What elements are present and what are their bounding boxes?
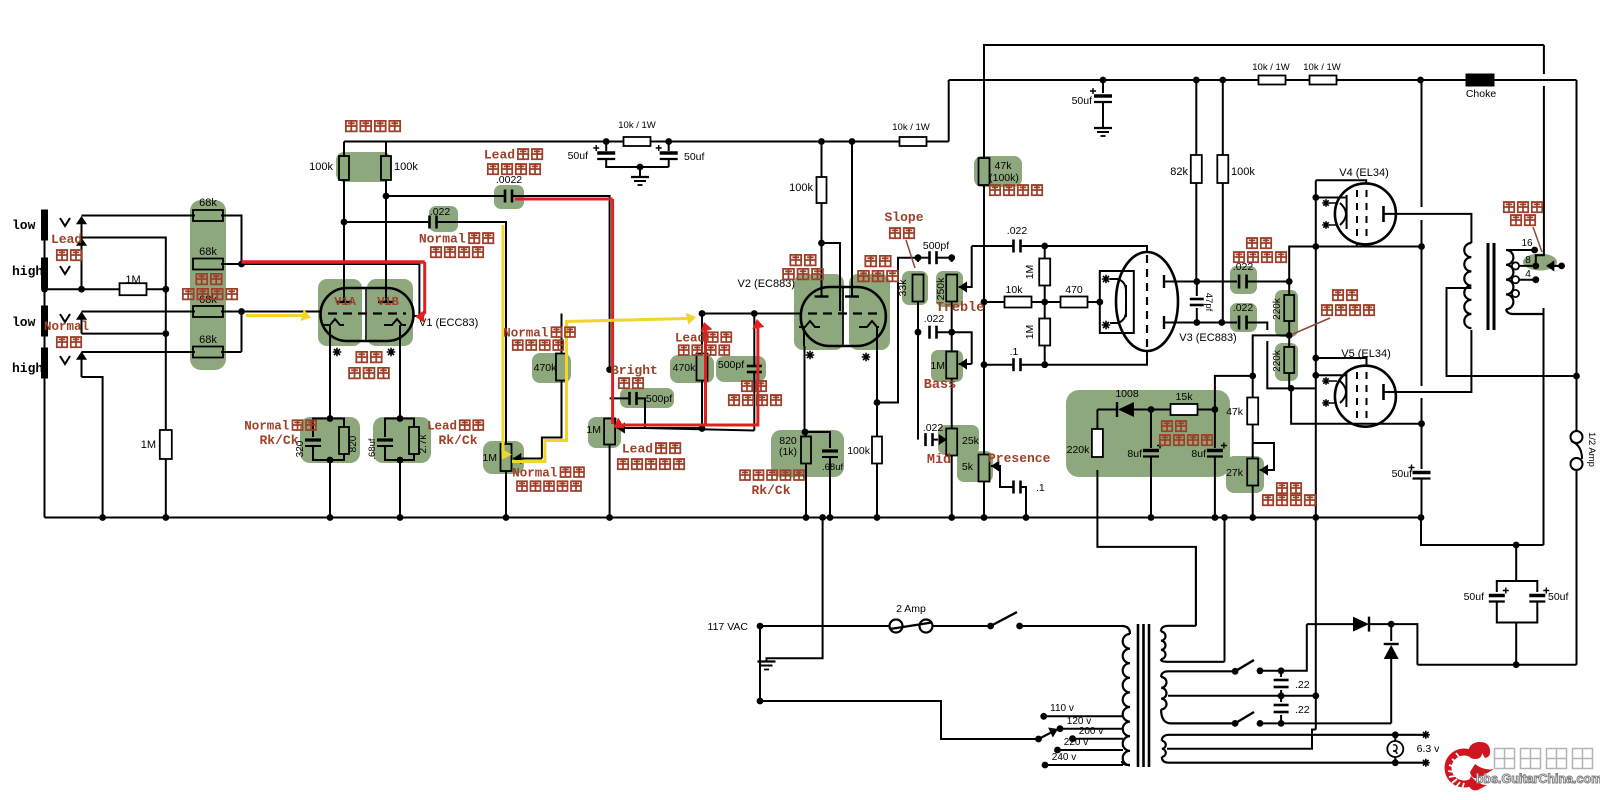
wire: treble wiper to PI coupling cap [972,245,1014,247]
wire: HT tap lower to .22 [1260,722,1281,724]
highlight box: Normal volume pot [483,441,524,474]
wire: V4/V5 grid vertical [1315,180,1317,517]
svg-text:Choke: Choke [1466,88,1497,100]
wire: reservoir bottom to HT line [1515,623,1517,665]
svg-text:.68uf: .68uf [822,462,843,473]
jack J4 Normal high sleeve bar [42,348,48,378]
svg-text:Lead: Lead [427,420,457,434]
junction: V4 screen on supply [1418,243,1425,250]
svg-text:2 Amp: 2 Amp [896,603,926,615]
selector arrow: mains voltage [1035,736,1042,743]
resistor 820 Normal Rk [330,419,344,428]
svg-text:V5 (EL34): V5 (EL34) [1341,348,1391,360]
ground symbol: filter caps [639,167,641,177]
label: mixing bypass cap [742,381,766,391]
capacitor 50uf filter B [668,142,670,152]
wire: Normal coupling cap to volume pot [437,222,507,444]
wire: switch to PT primary [1020,625,1122,627]
junction: slope bottom / bass cap [915,329,922,336]
highlight box: feedback resistor 47k(100k) [974,156,1022,187]
tube V3 EC883 envelope [1116,252,1178,351]
svg-text:high: high [12,361,43,376]
jack J4 tip contact [60,356,70,364]
logo: GuitarChina title [1495,749,1593,769]
resistor 220k bias splitter upper [1288,282,1290,296]
highlight box: V2 Rk/Ck 820/.68uf [771,430,844,477]
svg-text:V1B: V1B [377,295,399,309]
junction: V2 grid node (bypass top) [751,310,758,317]
svg-text:50uf: 50uf [1548,591,1569,603]
svg-text:10k: 10k [1006,284,1024,296]
svg-text:Rk/Ck: Rk/Ck [259,433,298,448]
label: input grid resistors [196,274,221,285]
junction: V4 grid node [1286,278,1293,285]
wire: right edge HT feed (rail2 corner down to fuse) [1576,80,1578,431]
highlight box: bias trim pot 27k [1226,456,1264,493]
wire: OT primary center tap to HT [1447,288,1577,376]
junction: Lead wiper/470k bottom [699,425,706,432]
junction: Normal pot on bus [503,514,510,521]
junction: mid pot on bus [948,514,955,521]
label: second amplification stage [790,255,815,266]
wire: B+ rail 2 (screen supply) [949,79,1577,81]
diode rectifier D2 [1390,624,1392,641]
heater mark V2a [806,351,814,359]
label: negative feedback tap [1504,202,1542,212]
svg-text:1/2 Amp: 1/2 Amp [1586,432,1597,467]
junction: Lead Rk on bus [397,514,404,521]
capacitor .68uf Lead Ck [385,419,400,438]
transformer PT primary winding [1122,626,1130,634]
capacitor 50uf reservoir right [1529,594,1545,597]
wire: mains hot to fuse [760,625,889,627]
svg-text:8uf: 8uf [1191,448,1206,460]
svg-text:V3 (EC883): V3 (EC883) [1179,332,1236,344]
highlight box: V1B triode [367,279,413,346]
transformer PT HT winding upper [1161,626,1196,632]
capacitor 50uf reservoir left [1489,594,1505,597]
wire: mains neutral [760,626,1036,739]
arrow: feedback points at 8 ohm tap [1549,265,1562,267]
junction: V5 screen on supply [1418,420,1425,427]
svg-text:50uf: 50uf [1072,95,1093,107]
svg-text:Rk/Ck: Rk/Ck [438,433,477,448]
wire: Normal Rk/Ck to ground bus [329,460,331,518]
leader: slope to 33k [906,240,915,268]
svg-text:200 v: 200 v [1079,726,1103,737]
potentiometer 5k presence [979,455,990,482]
resistor 68k R2 (Lead high) [221,263,242,265]
tube V3 grid box [1100,271,1134,333]
svg-text:Lead: Lead [484,148,515,163]
resistor 15k bias [1151,409,1171,411]
junction: PI tail cap node [1041,361,1048,368]
capacitor .22 snubber lower [1280,696,1282,702]
resistor 68k R3 (Normal low) [193,306,223,317]
svg-text:Normal: Normal [419,232,466,247]
switch: HT tap lower [1232,720,1239,727]
jack J2 tip arrow [81,240,83,290]
resistor 10k/1W screen dropper B [1310,76,1337,85]
svg-text:27k: 27k [1226,467,1244,479]
tap loop secondary lower [1512,290,1519,297]
resistor 10k/1W dropper A [624,137,651,146]
svg-text:Rk/Ck: Rk/Ck [751,483,790,498]
capacitor 500pf treble [918,257,930,259]
junction: 4 ohm tap end [1532,276,1539,283]
resistor 47k bias [1252,376,1254,398]
wire: V5 top grid jumper [1316,358,1367,366]
svg-text:Lead: Lead [622,442,653,457]
svg-text:10k / 1W: 10k / 1W [618,120,656,131]
svg-text:100k: 100k [1231,166,1255,178]
tube V1A plate bar [337,301,352,303]
potentiometer 1M bass [951,332,953,351]
capacitor 50uf screen filter [1102,80,1104,93]
wire: V4 cathode/screen line [1356,244,1358,247]
highlight box: Lead Rk/Ck [373,417,431,463]
switch: mains power [987,623,994,630]
wire: jack sleeve bus (left vertical) [44,213,46,518]
junction: 8uf A on bus [1148,514,1155,521]
resistor 820(1k) V2 Rk [805,432,807,437]
junction: center tap to ground riser [1312,692,1319,699]
svg-text:Lead: Lead [51,232,82,247]
highlight box: bias splitter 220k upper [1275,290,1298,337]
tube V1B cathode [384,319,406,341]
svg-text:16: 16 [1521,238,1533,249]
svg-text:Treble: Treble [936,301,985,316]
lamp: pilot light 6.3v [1392,731,1399,738]
svg-text:8uf: 8uf [1127,448,1142,460]
svg-text:220 v: 220 v [1064,737,1088,748]
wire: V4 grid entry [1316,197,1347,199]
resistor 470 PI grid stopper [1045,301,1061,303]
svg-text:470: 470 [1065,284,1083,296]
resistor 33k slope [917,258,919,262]
tube V3 plate B bar [1163,316,1165,329]
wire: V4 grid feed riser [1289,247,1421,282]
svg-text:68k: 68k [199,334,217,346]
tube V5 internal dashes [1357,372,1367,420]
junction: presence line/.1 [981,361,988,368]
junction: bias chain top [1249,373,1256,380]
wire: J2 tip riser to 68k R2 line [82,238,166,265]
wire: ground bus [45,517,1422,519]
leader: bias splitter to mid node [1293,318,1330,334]
wire: V5 cathode line from 220k bottom [1291,388,1421,423]
wire: HT winding top lead riser [1195,547,1197,626]
svg-text:10k / 1W: 10k / 1W [892,122,930,133]
svg-text:Bass: Bass [924,378,956,393]
heater wire end marks [1422,731,1430,739]
highlight box: output coupling cap 1 [1230,266,1257,294]
junction: presence cap on bus [1023,514,1030,521]
transformer PT core [1137,624,1140,767]
svg-text:.1: .1 [1010,346,1019,358]
svg-text:10k / 1W: 10k / 1W [1303,62,1341,73]
svg-text:Normal: Normal [244,420,289,434]
resistor 100k V2 plate [821,142,823,178]
tube V2a cathode [799,321,820,346]
wire: follower grid feed [822,243,841,311]
svg-text:high: high [12,264,43,279]
wire: V2 ground drop [767,518,823,662]
junction: x=102.6 on ground bus [99,514,106,521]
tube V1 center divider [365,288,367,341]
svg-text:1M: 1M [1024,265,1036,280]
wire: PI grid node to tube top [1045,246,1147,253]
heater mark V1B [387,348,395,356]
svg-text:low: low [12,218,36,233]
wire: J4 tip to 68k R4 [82,351,196,353]
junction: 27k on bus [1249,514,1256,521]
junction: rail1 V2 plate [818,138,825,145]
fuse 2 Amp mains [890,620,903,633]
junction: reservoir on HT line [1513,661,1520,668]
highlight box: Lead mixing resistor 470k [670,355,714,383]
highlight box: Lead coupling cap [494,185,524,209]
junction: center tap/.22 node [1278,692,1285,699]
wire: fuse to switch [933,625,991,627]
wire: cathode follower plate to rail1 [851,142,853,297]
svg-text:1M: 1M [141,439,156,451]
fuse 1/2 Amp speaker [1571,431,1583,443]
junction: sleeve/1M [41,286,48,293]
junction: 8 ohm feedback node [1532,263,1539,270]
junction: V1A plate tap [341,219,348,226]
svg-text:.22: .22 [1295,704,1310,716]
capacitor .1 presence [1012,481,1015,494]
svg-text:15k: 15k [1176,391,1194,403]
transformer PT HT winding tapped [1161,671,1235,677]
tube V3 cathode bracket [1110,279,1126,323]
tube V4 EL34 envelope [1335,183,1396,244]
wire: tail node to V3 bottom [1045,350,1147,365]
potentiometer 25k mid [946,429,957,456]
resistor 10k PI divider [984,301,1005,303]
highlight box: presence pot 5k [957,451,993,482]
svg-text:10k / 1W: 10k / 1W [1252,62,1290,73]
svg-text:100k: 100k [789,182,813,194]
capacitor .022 output coupling upper [1238,275,1241,289]
capacitor 320 Normal Ck [313,419,330,438]
signal path: Lead red wire to volume pot [515,198,613,201]
svg-text:1M: 1M [482,452,497,464]
wire: V1A cathode to Rk/Ck [329,341,331,419]
resistor 82k V3 plate A load [1195,80,1197,156]
svg-text:470k: 470k [673,362,697,374]
wire: bias mid to bias supply [1253,335,1290,376]
resistor 68k R1 (Lead low) [193,210,223,221]
wire: negative feedback drop to speaker tap [1543,45,1545,74]
svg-text:Lead: Lead [675,332,705,346]
highlight box: slope resistor 33k [902,271,928,305]
junction: treble bottom / bass top [948,329,955,336]
highlight box: V1 plate resistors [336,152,391,182]
junction: B+ to right edge [1573,373,1580,380]
leader: feedback label to tap [1533,227,1542,252]
inductor Choke [1466,74,1494,86]
svg-text:1M: 1M [586,424,601,436]
wire: Normal grid wire to V1A [242,311,321,313]
wire: J3 bottom to vertical [82,333,166,335]
svg-text:25k: 25k [962,435,980,447]
junction: presence pot on bus [981,514,988,521]
tube V1 internal grid dashes [328,312,406,314]
wire: follower cathode to tail [876,346,878,403]
junction: rail2 100k [1219,77,1226,84]
wire: screen supply vertical x=1421.5 [1421,80,1423,207]
junction: 820 on bus [803,514,810,521]
svg-text:50uf: 50uf [684,151,705,163]
svg-text:(100k): (100k) [989,172,1019,184]
wire: PT tap 110v [1044,715,1123,717]
wire: bass wiper tie [952,332,972,364]
svg-text:6.3 v: 6.3 v [1417,743,1441,755]
capacitor 50uf screen bypass [1421,466,1423,469]
highlight box: V2 second stage triode [794,274,844,350]
junction: plate A / 82k / 47pf [1193,278,1200,285]
capacitor .022 bass [928,326,931,339]
junction: J2 arrow bottom [78,286,85,293]
junction: 8uf B on bus [1212,514,1219,521]
svg-text:100k: 100k [309,161,333,173]
ground symbol: mains earth [758,660,776,662]
junction: Lead pot on bus [606,514,613,521]
jack J1 tip contact [60,218,70,226]
capacitor .022 PI input [1012,240,1015,253]
svg-text:V1A: V1A [334,295,356,309]
tube V5 plate bar [1382,384,1385,400]
wire: Lead coupling cap to volume pot [512,196,610,370]
switch: HT tap upper [1232,668,1239,675]
node: V2a cathode net top [802,429,809,436]
wire: PT tap 120v [1060,728,1123,730]
svg-text:8: 8 [1525,255,1531,266]
highlight: negative feedback tap [1523,254,1557,271]
highlight box: mid pot 25k [938,425,979,455]
wire: output transformer secondary return [1543,314,1545,545]
transformer OT secondary winding [1506,250,1513,309]
resistor 47k(100k) feedback [983,156,985,159]
svg-text:.1: .1 [1036,482,1045,494]
svg-text:117 VAC: 117 VAC [708,621,749,633]
svg-text:68k: 68k [199,246,217,258]
junction: tone stack input node [915,254,922,261]
svg-text:50uf: 50uf [1464,591,1485,603]
potentiometer 250k treble [951,258,953,262]
resistor 100k follower tail [876,403,878,438]
svg-text:Normal: Normal [503,327,548,341]
svg-text:220k: 220k [1067,444,1091,456]
signal path: Normal yellow wire to volume pot [502,225,505,452]
wire: reservoir cap bridge [1497,545,1516,592]
label: cathode follower [865,256,890,267]
wire: Lead wiper line to mixing network [645,428,754,431]
wire: V5 plate to OT primary bottom [1384,330,1472,392]
svg-text:82k: 82k [1170,166,1188,178]
svg-text:Presence: Presence [988,451,1051,466]
svg-text:V4 (EL34): V4 (EL34) [1339,167,1389,179]
svg-text:Bright: Bright [611,363,658,378]
tube V3 internal dashed electrode [1146,255,1148,349]
label: plate resistors (ping ji dian zu) [346,121,400,132]
node: Lead cathode bottom [397,457,404,464]
resistor 68k R4 (Normal high) [221,351,242,353]
wire: tap lower to rectifier diode 2 [1281,722,1391,724]
highlight box: Lead volume pot [588,417,621,448]
highlight box: bias splitter 220k lower [1275,343,1298,381]
highlight box: bright cap 500pf [620,388,674,408]
junction: Normal Rk on bus [327,514,334,521]
svg-text:4: 4 [1525,269,1531,280]
resistor 1M input shunt (horizontal) [146,288,166,290]
wire: feedback/presence line [983,186,985,455]
wire: V2a cathode down [804,346,806,432]
tap loop 8 ohm [1512,262,1519,269]
node: Normal cathode top [327,415,334,422]
highlight box: V1A triode [318,279,362,346]
node: Lead cathode top [397,415,404,422]
tube V1 ECC83 envelope [321,288,414,341]
svg-text:1M: 1M [125,274,140,286]
junction: plate B / 100k [1218,319,1225,326]
transformer PT heater winding 6.3v [1162,735,1426,741]
junction: 1M right [162,286,169,293]
label: first amplification stage [356,352,381,363]
junction: rail1 50uf-a [603,138,610,145]
tube V4 cathode arc [1340,203,1346,225]
junction: V5 grid tap [1312,372,1319,379]
junction: V2 grid node (470k top) [699,310,706,317]
svg-text:2.7k: 2.7k [418,434,429,454]
svg-text:50uf: 50uf [568,150,589,162]
heater mark V4 lower [1322,221,1330,229]
svg-text:.0022: .0022 [496,174,522,186]
wire: bias feed from HT winding [1097,470,1196,626]
junction: follower cathode node [874,399,881,406]
tube V5 cathode arc [1340,381,1346,403]
highlight box: bass pot 1M [931,350,963,382]
wire: PT tap 220v [1058,749,1124,751]
svg-text:(1k): (1k) [779,446,797,458]
junction: rail1 follower plate [849,138,856,145]
wire: HT upper bottom lead to ground bus [1224,518,1226,662]
node: Normal cathode bottom [327,457,334,464]
junction: Lead channel mix point [238,261,245,268]
highlight box: Normal coupling cap [429,206,458,232]
capacitor .022 Normal coupling [344,221,430,223]
junction: PI grid node [1041,243,1048,250]
junction: .22 lower bottom [1278,720,1285,727]
tube V2 center divider [842,287,844,346]
junction: J3 bottom [162,330,169,337]
tube V1A cathode [322,319,344,341]
signal path: Normal channel yellow wire input [246,314,303,317]
junction: Lead pot top [606,366,613,373]
jack J3 tip arrow [81,314,83,334]
junction: treble top node [948,254,955,261]
wire: HT tap upper to .22 [1260,670,1281,672]
signal path: Lead channel red wire input [242,260,425,264]
transformer OT primary winding [1464,243,1471,328]
tube V2 internal grid dashes [808,312,878,314]
heater mark V3 upper [1102,275,1110,283]
logo: GuitarChina dragon mark [1448,742,1494,790]
wire: PT tap 200v [1073,738,1124,740]
heater mark V5 upper [1322,377,1330,385]
